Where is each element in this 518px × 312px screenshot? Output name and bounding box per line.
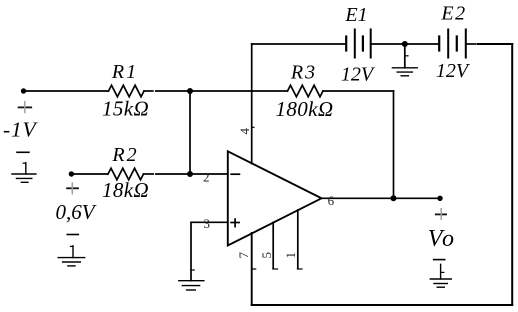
ground G5 (440, 264, 442, 279)
output minus sign (434, 259, 445, 261)
svg-text:E1: E1 (344, 4, 367, 26)
wire top rail to E1 (252, 43, 347, 45)
node IN2 terminal dot (69, 171, 74, 176)
pin 5 tick (273, 268, 278, 270)
junction dot output-feedback (391, 195, 397, 201)
pin 7 tick (252, 268, 256, 270)
wire E1 to ground junction (371, 43, 405, 45)
junction dot supply mid (402, 41, 408, 47)
svg-text:4: 4 (237, 128, 252, 135)
ground G3 (191, 269, 194, 271)
svg-text:3: 3 (204, 216, 211, 231)
wire R3 feedback vertical (393, 91, 395, 198)
wire R1 right segment b to R3 (156, 90, 288, 92)
wire R1 right segment a (144, 90, 153, 92)
wire pin 7 vertical (251, 233, 253, 305)
op-amp U1 triangle (228, 151, 322, 245)
wire node A vertical (189, 91, 191, 174)
svg-text:1: 1 (283, 252, 298, 259)
wire output pin 6 (322, 197, 441, 199)
node OUT terminal dot (437, 196, 442, 201)
source V2 plus sign (67, 187, 78, 189)
svg-text:R3: R3 (290, 61, 317, 83)
wire E2 right segment b (477, 43, 512, 45)
svg-text:12V: 12V (341, 63, 376, 85)
svg-text:R2: R2 (111, 144, 138, 166)
svg-text:0,6V: 0,6V (55, 200, 96, 224)
resistor R3 (288, 85, 324, 97)
resistor R1 (109, 85, 145, 97)
svg-text:-1V: -1V (3, 117, 39, 141)
wire junction to E2 (405, 43, 439, 45)
battery E2 (438, 37, 440, 51)
wire R2 right segment b to pin 2 (156, 173, 228, 175)
svg-text:12V: 12V (436, 60, 471, 82)
wire R2 right segment a (144, 173, 154, 175)
ground G4 (404, 44, 406, 68)
junction dot node A (187, 88, 193, 94)
op-amp inverting marker - (231, 173, 239, 175)
wire IN2 to R2 (71, 173, 108, 175)
battery E1 (345, 37, 347, 51)
output plus sign (436, 213, 446, 215)
svg-text:5: 5 (259, 252, 274, 259)
pin 1 tick (297, 268, 302, 270)
source V1 minus sign (17, 151, 29, 153)
svg-text:7: 7 (236, 251, 251, 258)
node IN1 terminal dot (21, 88, 26, 93)
svg-text:o: o (442, 226, 454, 252)
svg-text:6: 6 (328, 193, 335, 208)
resistor R2 (108, 168, 144, 180)
wire pin 1 stub (297, 210, 299, 268)
wire pin 3 (191, 222, 228, 280)
svg-text:2: 2 (203, 170, 210, 185)
svg-text:180kΩ: 180kΩ (275, 97, 333, 121)
wire right rail down (511, 44, 513, 305)
ground G2 (70, 245, 73, 247)
wire E2 right segment a (466, 43, 475, 45)
svg-text:R1: R1 (111, 61, 138, 83)
source V1 plus sign (19, 106, 32, 108)
ground G1 (23, 162, 26, 164)
wire pin 4 vertical (251, 44, 253, 164)
pin 4 tick (252, 126, 254, 128)
svg-text:E2: E2 (440, 2, 466, 24)
wire IN1 to R1 (24, 90, 109, 92)
wire R3 right (323, 90, 394, 92)
svg-text:18kΩ: 18kΩ (102, 178, 149, 202)
op-amp non-inverting marker + (231, 222, 239, 224)
svg-text:15kΩ: 15kΩ (102, 96, 149, 120)
source V2 minus sign (67, 234, 78, 236)
junction dot node B (187, 171, 193, 177)
wire pin 5 stub (272, 222, 274, 267)
wire bottom rail (252, 304, 513, 306)
